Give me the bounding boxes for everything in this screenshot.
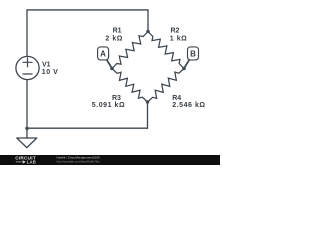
svg-text:1 kΩ: 1 kΩ [170, 35, 188, 42]
svg-text:hltp://circuitlab.com/c9pw3Nd6: hltp://circuitlab.com/c9pw3Nd6x75ar [57, 159, 100, 163]
svg-text:2.546 kΩ: 2.546 kΩ [172, 102, 205, 109]
svg-text:A: A [100, 50, 106, 59]
svg-text:10 V: 10 V [42, 69, 59, 76]
svg-text:LAB: LAB [27, 160, 36, 165]
resistor R2 [148, 32, 184, 69]
voltage source V1 [16, 56, 39, 79]
watermark bar [0, 155, 220, 165]
wire ground stem [26, 128, 28, 138]
resistor R4 [148, 69, 185, 103]
ground [17, 138, 37, 148]
logo LAB line [16, 161, 22, 163]
logo triangle [23, 160, 27, 163]
junction node B [182, 67, 186, 71]
wire V1 bottom lead [26, 80, 28, 128]
svg-text:5.091 kΩ: 5.091 kΩ [92, 102, 125, 109]
svg-text:Hashit / CircuitAssignment3105: Hashit / CircuitAssignment3105 [57, 155, 100, 159]
svg-text:R4: R4 [172, 95, 181, 102]
wire V1 top lead [26, 10, 28, 56]
resistor R1 [112, 32, 148, 69]
wire top horizontal [27, 9, 148, 11]
svg-text:2 kΩ: 2 kΩ [105, 35, 123, 42]
node A flag box [98, 47, 109, 60]
svg-text:R3: R3 [112, 95, 121, 102]
wire up to bridge bottom node [147, 102, 149, 128]
wire down to bridge top node [147, 10, 149, 32]
node B flag box [188, 47, 199, 60]
junction ground [25, 127, 29, 131]
svg-text:B: B [190, 50, 196, 59]
node B flag stem [184, 58, 190, 68]
svg-text:V1: V1 [42, 61, 51, 68]
svg-text:R1: R1 [113, 28, 122, 35]
junction bottom node [146, 100, 150, 104]
junction node A [110, 67, 114, 71]
resistor R3 [112, 69, 148, 103]
svg-text:R2: R2 [171, 28, 180, 35]
node A flag stem [106, 58, 112, 68]
junction top node [146, 30, 150, 34]
wire bottom horizontal [27, 127, 148, 129]
